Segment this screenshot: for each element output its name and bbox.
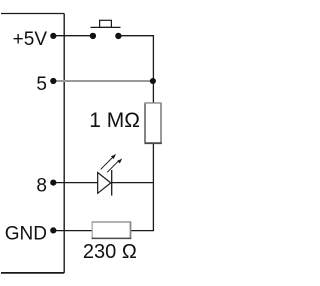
svg-text:+5V: +5V [13,29,48,50]
svg-text:5: 5 [36,74,47,95]
svg-text:8: 8 [36,176,47,197]
svg-text:GND: GND [5,223,47,244]
svg-text:1 MΩ: 1 MΩ [89,109,140,132]
svg-text:230 Ω: 230 Ω [83,241,137,263]
